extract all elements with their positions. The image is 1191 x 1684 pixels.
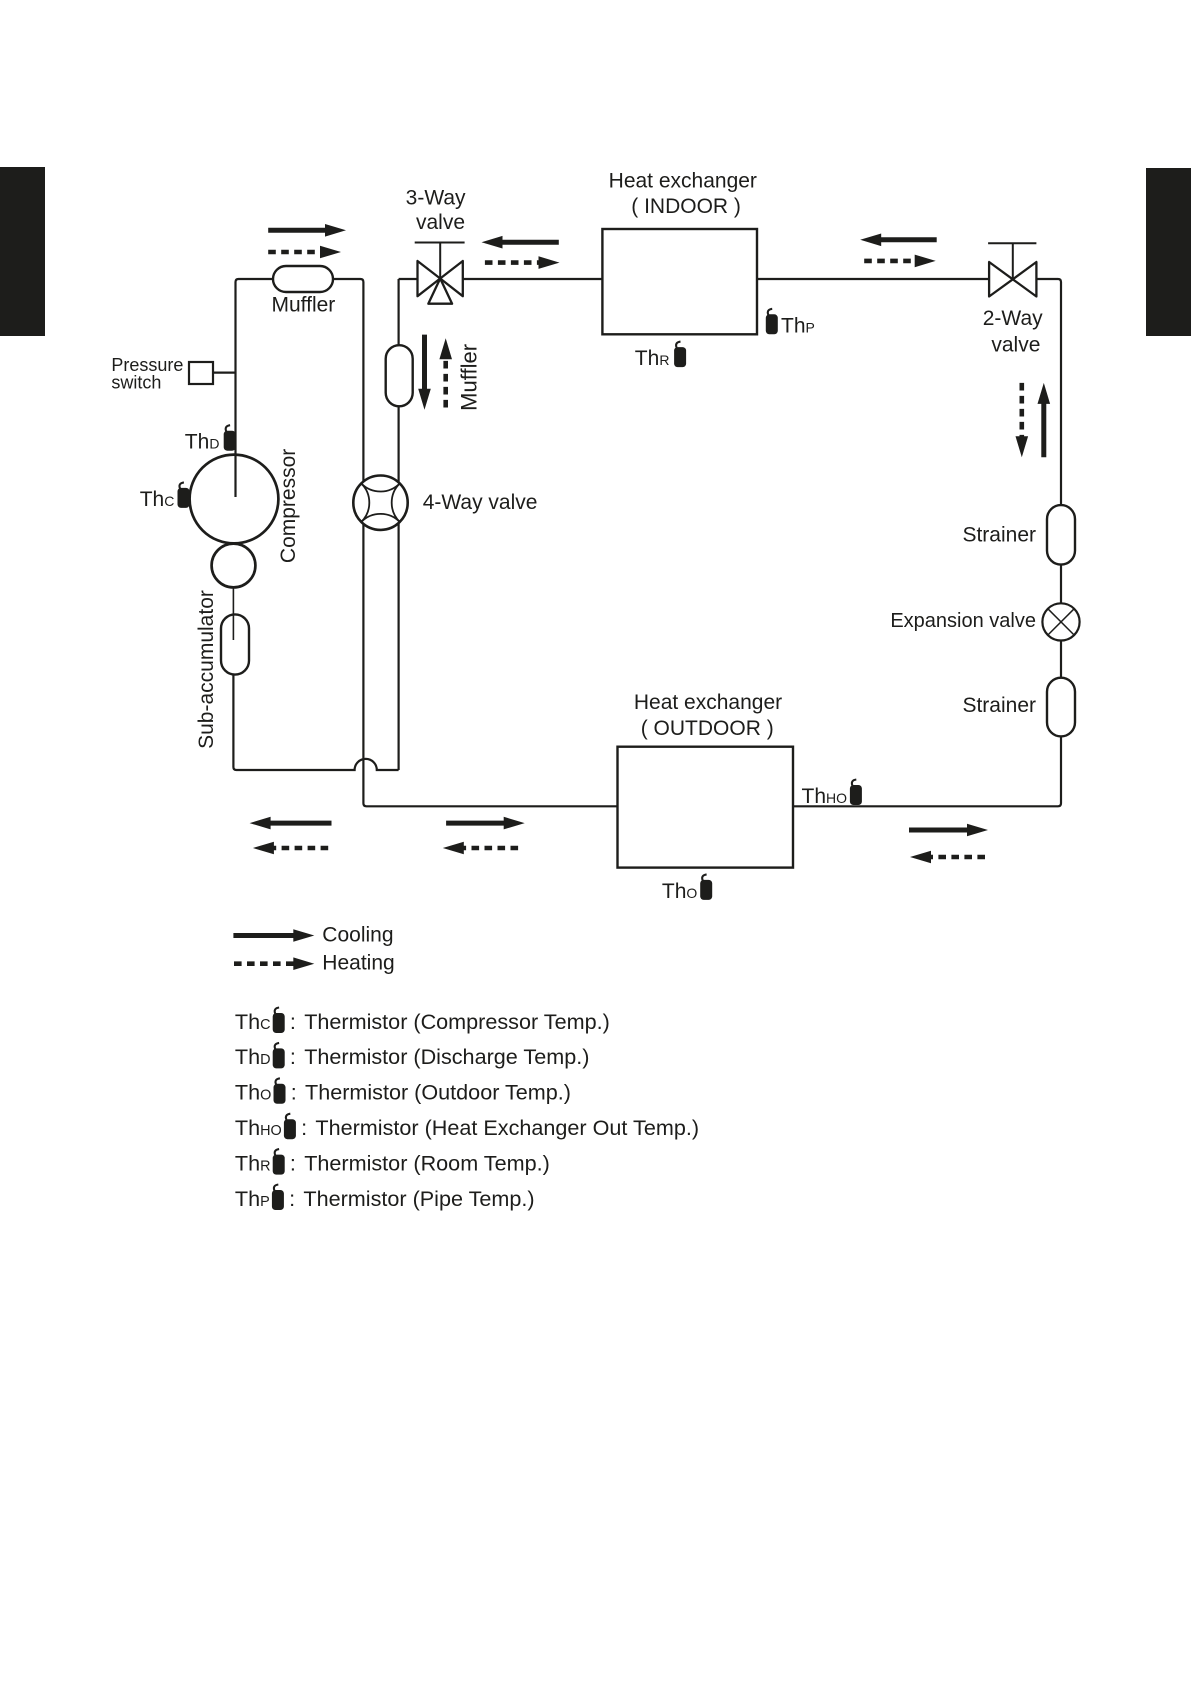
svg-text:Muffler: Muffler: [271, 294, 335, 317]
heating flow arrow above muffler: [268, 250, 322, 255]
wire: strainer to expansion valve: [1060, 565, 1062, 604]
wire: strainer down to bottom pipe and to outdoor HX: [793, 736, 1061, 806]
indoor heat exchanger box: [602, 229, 757, 334]
heating flow arrow left of indoor HX: [485, 260, 541, 265]
svg-text:Thermistor (Compressor Temp.): Thermistor (Compressor Temp.): [304, 1009, 610, 1034]
thermistor icon ThR: [674, 347, 686, 367]
wire: indoor HX to 2-way valve: [757, 278, 989, 280]
wire: 3-way valve drop to vertical muffler: [398, 279, 400, 345]
thermistor icon ThHO: [850, 785, 862, 805]
svg-text:4-Way valve: 4-Way valve: [423, 491, 538, 514]
svg-text:Cooling: Cooling: [322, 924, 393, 947]
wire: top pipe muffler to drop corner: [333, 279, 363, 481]
svg-text::: :: [290, 1150, 296, 1175]
svg-text:2-Way: 2-Way: [983, 307, 1043, 330]
expansion valve: [1042, 603, 1079, 640]
heating flow arrow bottom left: [272, 846, 328, 851]
svg-text:Compressor: Compressor: [277, 449, 300, 563]
wire: top pipe 3-way valve to indoor HX: [399, 278, 418, 280]
svg-text:Thermistor (Outdoor Temp.): Thermistor (Outdoor Temp.): [305, 1080, 571, 1105]
wire: dip tube inside sub-accumulator: [232, 616, 234, 641]
svg-text:Muffler: Muffler: [457, 344, 482, 411]
cooling flow arrow right of indoor HX: [879, 237, 937, 242]
thermistor icon ThP: [766, 314, 778, 334]
svg-text:( INDOOR ): ( INDOOR ): [631, 195, 741, 218]
svg-text::: :: [289, 1186, 295, 1211]
cooling flow arrow above strainer: [1041, 402, 1046, 457]
svg-text:Sub-accumulator: Sub-accumulator: [195, 590, 218, 749]
compressor circle: [190, 455, 279, 544]
cooling flow arrow bottom left: [269, 821, 332, 826]
svg-text::: :: [291, 1080, 297, 1105]
svg-text:Thermistor (Room Temp.): Thermistor (Room Temp.): [304, 1150, 550, 1175]
thermistor icon ThO: [700, 880, 712, 900]
thermistor icon ThD: [224, 431, 236, 451]
muffler (vertical capsule): [386, 345, 413, 406]
svg-text:3-Way: 3-Way: [406, 186, 466, 209]
svg-text:Thermistor (Pipe Temp.): Thermistor (Pipe Temp.): [303, 1186, 534, 1211]
wire: left riser from compressor to top pipe: [236, 279, 274, 497]
legend heating arrow: [234, 961, 295, 966]
svg-text:Strainer: Strainer: [962, 524, 1036, 547]
svg-text:( OUTDOOR ): ( OUTDOOR ): [641, 717, 774, 740]
svg-text:valve: valve: [991, 333, 1040, 356]
4-way valve: [353, 476, 407, 530]
heating flow arrow bottom middle: [462, 846, 518, 851]
heating flow arrow right of indoor HX: [864, 259, 917, 264]
thermistor icon ThC: [178, 488, 190, 508]
2-way valve: [988, 243, 1036, 296]
wire: expansion valve to strainer: [1060, 641, 1062, 678]
svg-text::: :: [290, 1044, 296, 1069]
right page tab: [1146, 168, 1191, 336]
wire: sub-accumulator to junction, with hop over left drop: [233, 675, 398, 770]
outdoor heat exchanger box: [618, 747, 794, 868]
sub-accumulator capsule: [221, 614, 249, 674]
wire: vertical muffler to 4-way valve: [398, 406, 400, 482]
wire: left drop to bottom pipe and to outdoor HX: [363, 524, 617, 806]
cooling flow arrow beside vertical muffler: [422, 335, 427, 391]
svg-text:Expansion valve: Expansion valve: [890, 610, 1036, 632]
cooling flow arrow left of indoor HX: [501, 240, 559, 245]
wire: 4-way valve down to junction with sub-accumulator run: [398, 523, 400, 770]
svg-text:Heating: Heating: [322, 952, 394, 975]
wire: compressor small circle to sub-accumulator dip tube: [232, 588, 234, 641]
3-way valve: [415, 243, 465, 304]
wire: pressure switch connector: [213, 372, 236, 374]
pressure switch box: [189, 362, 213, 384]
svg-text:switch: switch: [111, 372, 161, 392]
compressor suction circle: [212, 544, 256, 588]
heating flow arrow bottom right: [929, 855, 985, 860]
cooling flow arrow bottom right: [909, 828, 969, 833]
svg-text:Heat exchanger: Heat exchanger: [609, 169, 757, 192]
strainer upper capsule: [1047, 505, 1075, 564]
svg-text:Strainer: Strainer: [962, 694, 1036, 717]
heating flow arrow beside vertical muffler: [443, 357, 448, 407]
cooling flow arrow bottom middle: [446, 821, 506, 826]
heating flow arrow above strainer: [1019, 383, 1024, 438]
svg-text:Heat exchanger: Heat exchanger: [634, 691, 782, 714]
left page tab: [0, 167, 45, 336]
strainer lower capsule: [1047, 678, 1075, 737]
svg-text:Thermistor (Heat Exchanger Out: Thermistor (Heat Exchanger Out Temp.): [315, 1115, 699, 1140]
svg-text::: :: [301, 1115, 307, 1140]
muffler (horizontal capsule): [273, 266, 333, 292]
svg-text:Thermistor (Discharge Temp.): Thermistor (Discharge Temp.): [304, 1044, 589, 1069]
cooling flow arrow above muffler: [268, 228, 327, 233]
svg-text:valve: valve: [416, 211, 465, 234]
wire: 2-way valve to right column down to strainer: [1036, 279, 1061, 505]
wire: discharge line inside compressor to center: [234, 455, 236, 497]
svg-text::: :: [290, 1009, 296, 1034]
legend cooling arrow: [233, 933, 295, 938]
